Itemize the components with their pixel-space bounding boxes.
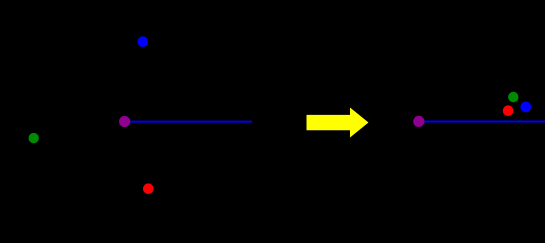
node right blue dot (520, 102, 531, 113)
node left purple dot (119, 116, 130, 127)
arrow yellow (307, 108, 369, 138)
wire left blue line (130, 121, 253, 123)
node right green dot (508, 92, 518, 102)
node right purple dot (413, 116, 424, 127)
node left blue dot (138, 36, 149, 47)
node left green dot (29, 133, 39, 143)
wire right blue line (424, 121, 545, 123)
node left red dot (143, 183, 154, 194)
node right red dot (503, 105, 514, 116)
